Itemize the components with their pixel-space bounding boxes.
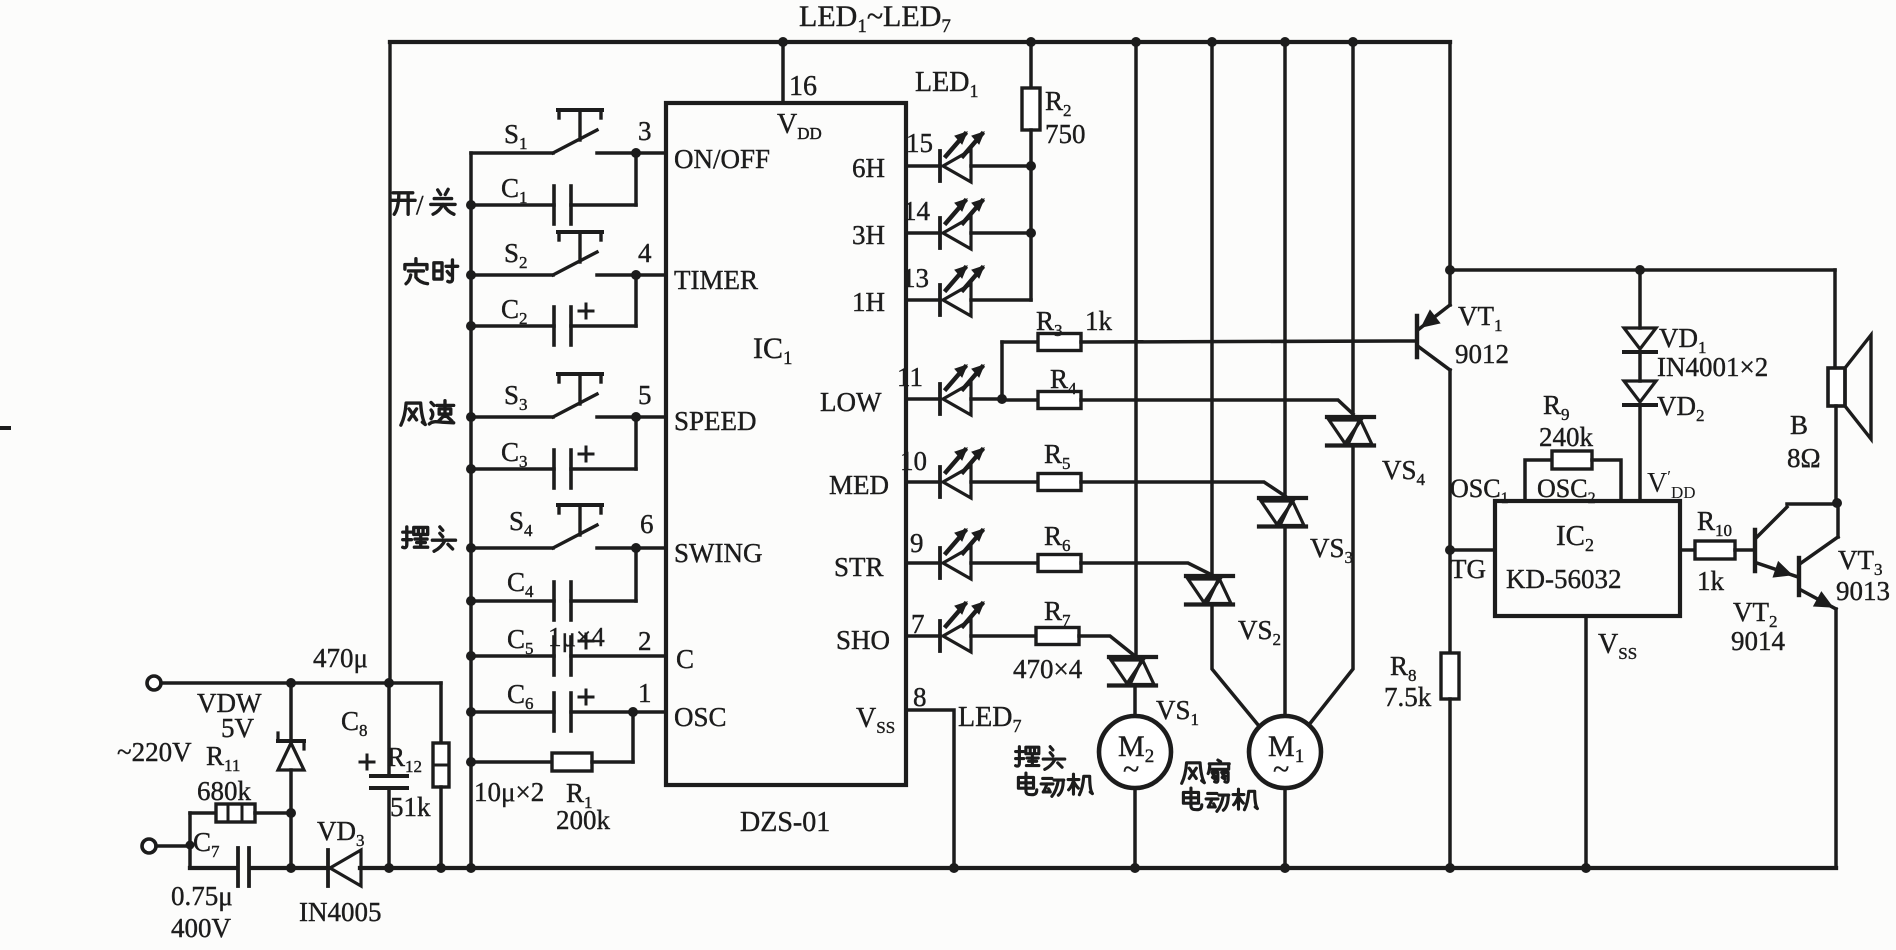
label S2 — [504, 238, 528, 272]
label MED — [829, 470, 889, 500]
diode VD3 IN4005 — [328, 850, 361, 886]
wire C5 row left — [471, 654, 554, 658]
label R7 — [1044, 596, 1071, 630]
svg-text:15: 15 — [906, 128, 933, 158]
label 240k — [1539, 422, 1594, 452]
label M2 diandongji — [1018, 773, 1092, 796]
label VDD pin — [777, 109, 822, 143]
wire C4 row right — [571, 599, 636, 603]
svg-text:9: 9 — [910, 528, 924, 558]
LED1 6H (pin15) — [906, 132, 984, 182]
label 1H — [852, 287, 885, 317]
node zener branch — [286, 678, 296, 688]
wire pin3 riser — [634, 153, 638, 205]
label VS3 — [1310, 533, 1353, 567]
svg-text:LOW: LOW — [820, 387, 882, 417]
label pin13 — [902, 263, 929, 293]
switch S2 — [553, 232, 602, 275]
label TG — [1450, 554, 1486, 584]
label 200k — [556, 805, 611, 835]
svg-text:1μ×4: 1μ×4 — [548, 622, 605, 652]
label VT3 — [1838, 545, 1883, 579]
wire TG — [1450, 548, 1495, 552]
triac VS3 — [1259, 498, 1306, 527]
node VD1 branch junction — [1635, 265, 1645, 275]
label C4 — [507, 567, 534, 601]
label pin6 — [640, 509, 654, 539]
svg-text:4: 4 — [638, 238, 652, 268]
wire VSS stub — [1584, 616, 1588, 868]
svg-text:MED: MED — [829, 470, 889, 500]
wire R5 left lead — [971, 480, 1038, 484]
label LED1~LED7 title — [799, 0, 951, 37]
svg-text:3H: 3H — [852, 220, 885, 250]
resistor R11 680k — [216, 804, 255, 822]
label pin9 — [910, 528, 924, 558]
label OSC — [674, 702, 727, 732]
capacitor C4 — [554, 582, 571, 620]
node TG junction — [1445, 545, 1455, 555]
capacitor C1 — [554, 186, 571, 224]
label STR — [834, 552, 884, 582]
label OSC2 — [1537, 474, 1596, 507]
label pin3 — [638, 116, 652, 146]
wire vertical bus to VS4 — [1351, 42, 1355, 417]
wire S3 row — [471, 415, 553, 419]
transistor VT1 9012 — [1417, 270, 1450, 550]
label M1 diandongji — [1183, 788, 1257, 811]
wire C1 row left — [471, 203, 554, 207]
node bus-C4 — [466, 596, 476, 606]
node bus-C6 — [466, 707, 476, 717]
wire R12 top lead — [439, 683, 443, 743]
wire left frame vertical — [388, 42, 391, 683]
svg-text:OSC2: OSC2 — [1537, 474, 1596, 507]
label SHO — [836, 625, 890, 655]
node R2-6H — [1026, 161, 1036, 171]
node IC2VSS-rail — [1581, 863, 1591, 873]
svg-text:LED1~LED7: LED1~LED7 — [799, 0, 951, 37]
wire R10 right lead — [1735, 548, 1755, 552]
svg-text:OSC1: OSC1 — [1450, 474, 1509, 507]
svg-text:6H: 6H — [852, 153, 885, 183]
wire right edge drop to speaker — [1833, 270, 1837, 368]
node bus-rail — [466, 863, 476, 873]
svg-text:TG: TG — [1450, 554, 1486, 584]
label VSS pin — [856, 703, 895, 737]
label VSS2 — [1598, 629, 1637, 663]
svg-text:ON/OFF: ON/OFF — [674, 144, 770, 174]
wire R12 bottom lead — [439, 787, 443, 868]
node R11-zener junction — [286, 808, 296, 818]
wire R3 to VT1 base — [1081, 341, 1417, 342]
LED2 3H (pin14) — [906, 199, 984, 249]
resistor R10 1k — [1695, 541, 1735, 559]
svg-text:470×4: 470×4 — [1013, 654, 1083, 684]
label 680k — [197, 776, 252, 806]
zener diode VDW 5V — [278, 683, 304, 813]
label 8ohm — [1787, 443, 1821, 473]
label R12 — [387, 742, 422, 776]
wire 470u node horizontal — [161, 681, 441, 684]
LED3 1H (pin13) — [906, 266, 984, 316]
svg-text:200k: 200k — [556, 805, 611, 835]
node pin1-R1 junction — [628, 707, 638, 717]
wire C3 row left — [471, 467, 554, 471]
wire LED13 out — [971, 298, 1031, 302]
label R10 — [1697, 506, 1732, 540]
node R3/R4 junction — [997, 394, 1007, 404]
wire R1 row right — [592, 760, 633, 764]
label R3 1k — [1036, 306, 1113, 340]
label C7 — [193, 827, 220, 861]
wire bottom rail main — [360, 866, 1836, 870]
resistor R8 7.5k — [1441, 653, 1459, 699]
label 1k — [1697, 566, 1725, 596]
wire C4 row left — [471, 599, 554, 603]
svg-text:16: 16 — [789, 71, 817, 102]
svg-text:SWING: SWING — [674, 538, 763, 568]
wire VD2 to IC2 — [1638, 405, 1642, 501]
wire zener to rail — [289, 813, 293, 868]
svg-text:1k: 1k — [1697, 566, 1725, 596]
label pin11 — [897, 362, 923, 392]
label IC1 — [753, 332, 793, 369]
wire bottom rail segment A — [190, 866, 237, 870]
label 470x4 — [1013, 654, 1083, 684]
node bus-C5 — [466, 651, 476, 661]
wire R7 left lead — [971, 634, 1036, 638]
svg-text:IN4005: IN4005 — [299, 897, 382, 927]
label IN4005 — [299, 897, 382, 927]
LED5 MED (pin10) — [906, 448, 984, 498]
label pin2 — [638, 626, 652, 656]
label C6 — [507, 679, 534, 713]
wire R7 to VS1 gate — [1079, 636, 1135, 656]
wire S4 to pin6 — [597, 546, 666, 550]
svg-text:11: 11 — [897, 362, 923, 392]
switch S3 — [553, 374, 602, 417]
label LOW — [820, 387, 882, 417]
label C5 — [507, 624, 534, 658]
op-amp IC1 box DZS-01 — [666, 103, 906, 785]
wire R8 bottom lead — [1448, 699, 1452, 868]
svg-text:~: ~ — [1273, 753, 1289, 786]
label S4 — [509, 506, 533, 540]
label fengsu (speed) — [401, 401, 454, 425]
resistor R12 51k — [433, 743, 449, 787]
label C2 — [501, 294, 528, 328]
svg-text:7: 7 — [911, 609, 925, 639]
label 1ux4 — [548, 622, 605, 652]
label S3 — [504, 380, 528, 414]
node lower terminal corner — [186, 841, 195, 850]
label 10ux2 — [474, 777, 544, 807]
terminal lower AC input — [142, 839, 156, 853]
wire R1 row left — [471, 760, 552, 764]
label B — [1790, 410, 1808, 440]
wire VS3 to M1 — [1283, 527, 1287, 716]
node R2 junction on top rail — [1026, 37, 1036, 47]
node C8 branch — [384, 678, 394, 688]
node bus-C2 — [466, 321, 476, 331]
svg-text:/: / — [416, 190, 424, 220]
svg-text:DZS-01: DZS-01 — [740, 807, 830, 838]
node bus-S4 — [466, 543, 476, 553]
svg-text:9012: 9012 — [1455, 339, 1509, 369]
wire VS4 to M1 — [1308, 446, 1353, 726]
wire VSS pin8 to rail — [906, 710, 954, 868]
resistor R9 240k — [1552, 451, 1592, 469]
capacitor C8 470u — [371, 776, 407, 788]
wire pin6 riser — [634, 548, 638, 601]
wire R4 to VS4 gate — [1081, 400, 1353, 414]
svg-text:13: 13 — [902, 263, 929, 293]
label pin8 — [913, 682, 927, 712]
node bus-C1 — [466, 200, 476, 210]
capacitor C3 — [554, 447, 593, 488]
label DZS-01 — [740, 807, 830, 838]
speaker B 8ohm — [1828, 335, 1871, 503]
diode VD2 — [1624, 381, 1656, 405]
terminal upper AC input — [147, 676, 161, 690]
node bus-R1 — [466, 757, 476, 767]
wire top-right corner drop — [1448, 42, 1452, 270]
svg-text:9014: 9014 — [1731, 626, 1786, 656]
wire left column bus — [469, 153, 473, 868]
wire S2 row — [471, 273, 553, 277]
svg-text:C: C — [676, 644, 694, 674]
svg-text:~: ~ — [1123, 753, 1139, 786]
label 6H — [852, 153, 885, 183]
wire left riser C7/R11 — [188, 813, 192, 868]
wire R10 left lead — [1680, 548, 1695, 552]
svg-text:7.5k: 7.5k — [1384, 682, 1432, 712]
svg-text:8: 8 — [913, 682, 927, 712]
svg-text:51k: 51k — [390, 792, 431, 822]
label pin C — [676, 644, 694, 674]
capacitor C7 0.75u — [238, 848, 249, 886]
label VS1 — [1156, 695, 1199, 729]
wire R4 left lead — [1002, 398, 1038, 402]
wire VD1-VD2 — [1638, 352, 1642, 381]
diode VD1 — [1624, 328, 1656, 352]
wire S1 row — [471, 151, 553, 155]
svg-text:SHO: SHO — [836, 625, 890, 655]
node M1-rail — [1280, 863, 1290, 873]
wire R3 riser — [1000, 342, 1004, 399]
node bus-C3 — [466, 464, 476, 474]
node bus1 junction on top rail — [1131, 37, 1141, 47]
wire C6 to pin1 — [571, 710, 666, 714]
motor M2 — [1099, 716, 1171, 788]
svg-text:SPEED: SPEED — [674, 406, 757, 436]
label S1 — [504, 119, 528, 153]
svg-text:6: 6 — [640, 509, 654, 539]
svg-text:2: 2 — [638, 626, 652, 656]
wire VD1 top lead — [1638, 270, 1642, 328]
svg-text:1: 1 — [638, 678, 652, 708]
wire C3 row right — [571, 467, 636, 471]
transistor VT3 9013 — [1799, 504, 1838, 868]
resistor R6 — [1038, 555, 1081, 572]
label R11 — [206, 741, 240, 775]
node VT1 emitter junction — [1445, 265, 1455, 275]
label 51k — [390, 792, 431, 822]
label pin1 — [638, 678, 652, 708]
label VD3 — [317, 816, 365, 850]
svg-text:14: 14 — [903, 196, 931, 226]
label ~220V — [117, 737, 192, 767]
node bus-S3 — [466, 412, 476, 422]
svg-text:1H: 1H — [852, 287, 885, 317]
label pin5 — [638, 380, 652, 410]
wire LED11 out — [971, 397, 1002, 401]
label dingshi (timer) — [405, 259, 458, 284]
wire top V+ rail — [390, 40, 1450, 44]
svg-text:0.75μ: 0.75μ — [171, 881, 233, 911]
node bus2 junction on top rail — [1207, 37, 1217, 47]
svg-text:240k: 240k — [1539, 422, 1594, 452]
label R9 — [1543, 390, 1570, 424]
label pin14 — [903, 196, 931, 226]
label VS2 — [1238, 615, 1281, 649]
wire vertical bus to VS2 — [1210, 42, 1214, 576]
wire S4 row — [471, 546, 553, 550]
node pin16 junction on top rail — [778, 37, 788, 47]
svg-text:KD-56032: KD-56032 — [1506, 564, 1622, 594]
label VT2 — [1733, 597, 1778, 631]
label VS4 — [1382, 455, 1426, 489]
transistor VT2 9014 — [1755, 504, 1837, 577]
label OSC1 — [1450, 474, 1509, 507]
svg-text:IN4001×2: IN4001×2 — [1657, 352, 1768, 382]
wire R11 right lead — [255, 811, 291, 815]
node R12-rail — [436, 863, 446, 873]
svg-text:TIMER: TIMER — [674, 265, 758, 295]
svg-text:10: 10 — [900, 446, 927, 476]
label LED7 — [958, 702, 1021, 736]
svg-text:750: 750 — [1045, 119, 1086, 149]
wire C2 row left — [471, 324, 554, 328]
triac VS2 — [1186, 576, 1233, 605]
wire V+ branch to right — [1450, 268, 1835, 272]
wire LED15 out — [971, 164, 1031, 168]
svg-text:OSC: OSC — [674, 702, 727, 732]
label R2 — [1045, 86, 1072, 120]
node R8-rail — [1445, 863, 1455, 873]
wire R8 top lead — [1448, 550, 1452, 653]
label 400V — [171, 913, 232, 943]
wire LED14 out — [971, 231, 1031, 235]
svg-text:470μ: 470μ — [313, 643, 368, 673]
svg-text:5: 5 — [638, 380, 652, 410]
svg-text:LED7: LED7 — [958, 702, 1021, 736]
node zener-rail — [286, 863, 296, 873]
label pin4 — [638, 238, 652, 268]
wire C1 row right — [571, 203, 636, 207]
wire C5 to pin2 — [571, 654, 666, 658]
label M1 fengshan — [1182, 760, 1230, 783]
wire R6 to VS2 gate — [1081, 563, 1212, 575]
wire R6 left lead — [971, 561, 1038, 565]
wire R2 to 6H — [1029, 130, 1033, 300]
wire R11 left lead — [190, 811, 216, 815]
wire M1 to rail — [1283, 788, 1287, 868]
label pin15 — [906, 128, 933, 158]
node bus3 junction on top rail — [1280, 37, 1290, 47]
label SWING — [674, 538, 763, 568]
node pin4 junction — [631, 270, 641, 280]
node pin5 junction — [631, 412, 641, 422]
capacitor C5 — [554, 634, 593, 675]
label 9013 — [1836, 576, 1890, 606]
label 0.75u — [171, 881, 233, 911]
svg-text:9013: 9013 — [1836, 576, 1890, 606]
wire S2 to pin4 — [597, 273, 666, 277]
wire M2 to rail — [1133, 788, 1137, 868]
label R5 — [1044, 439, 1071, 473]
label pin10 — [900, 446, 927, 476]
LED4 LOW (pin11) — [906, 365, 984, 415]
wire pin4 riser — [634, 275, 638, 326]
svg-text:STR: STR — [834, 552, 884, 582]
artifact left edge dash — [0, 426, 9, 430]
wire pin16 VDD drop — [781, 42, 785, 103]
svg-text:5V: 5V — [221, 713, 255, 743]
label ON/OFF — [674, 144, 770, 174]
label R1 — [566, 778, 593, 812]
label 5V — [221, 713, 255, 743]
label 3H — [852, 220, 885, 250]
wire R5 to VS3 gate — [1081, 482, 1285, 496]
motor M1 — [1249, 716, 1321, 788]
svg-text:8Ω: 8Ω — [1787, 443, 1821, 473]
label 9014 — [1731, 626, 1786, 656]
label TIMER — [674, 265, 758, 295]
node pin6 junction — [631, 543, 641, 553]
svg-text:3: 3 — [638, 116, 652, 146]
resistor R3 1k — [1038, 334, 1081, 351]
label VDD2 pin — [1647, 467, 1696, 502]
switch S1 — [553, 110, 602, 153]
node VSS-rail — [949, 863, 959, 873]
label kai/guan (on/off) — [391, 189, 455, 220]
triac VS4 — [1327, 417, 1374, 446]
label VDW — [197, 688, 262, 718]
wire OSC2 stub — [1592, 460, 1621, 501]
svg-text:400V: 400V — [171, 913, 232, 943]
label IC2 — [1556, 520, 1594, 555]
wire VS2 to M1 — [1212, 605, 1259, 726]
wire vertical bus to VS3 — [1283, 42, 1287, 498]
svg-text:LED1: LED1 — [915, 67, 978, 101]
svg-text:1k: 1k — [1085, 306, 1113, 336]
LED6 STR (pin9) — [906, 529, 984, 579]
label R4 — [1050, 364, 1077, 398]
node bus4 junction on top rail — [1348, 37, 1358, 47]
label pin7 — [911, 609, 925, 639]
resistor R4 — [1038, 392, 1081, 409]
resistor R7 — [1036, 628, 1079, 645]
label 9012 — [1455, 339, 1509, 369]
wire lower terminal lead — [156, 844, 190, 848]
label C3 — [501, 437, 528, 471]
wire C6 row left — [471, 710, 554, 714]
wire R1 riser — [631, 712, 635, 762]
svg-text:10μ×2: 10μ×2 — [474, 777, 544, 807]
node pin3 junction — [631, 148, 641, 158]
